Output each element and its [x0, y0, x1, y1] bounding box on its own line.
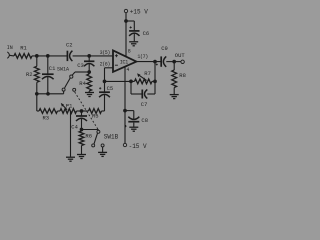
svg-text:C2: C2 [66, 42, 73, 49]
svg-text:C8: C8 [141, 117, 148, 124]
svg-text:R4: R4 [79, 80, 86, 87]
svg-text:R2: R2 [26, 71, 33, 78]
svg-text:C6: C6 [143, 30, 150, 37]
svg-text:2(6): 2(6) [100, 61, 111, 67]
svg-text:OUT: OUT [175, 52, 186, 59]
svg-text:SW1B: SW1B [104, 133, 119, 140]
svg-text:R1: R1 [20, 45, 27, 52]
svg-text:R6: R6 [85, 133, 92, 140]
svg-text:4: 4 [126, 67, 129, 73]
svg-text:R7: R7 [144, 70, 151, 77]
svg-text:IN: IN [7, 45, 13, 51]
svg-text:3(5): 3(5) [100, 50, 111, 56]
svg-text:R3: R3 [43, 115, 50, 122]
svg-text:SW1A: SW1A [57, 67, 69, 73]
svg-text:-15 V: -15 V [129, 143, 147, 150]
svg-text:P1: P1 [66, 102, 73, 109]
svg-text:8: 8 [128, 49, 131, 55]
svg-text:C3: C3 [77, 62, 84, 69]
svg-text:C7: C7 [141, 101, 148, 108]
svg-text:C9: C9 [161, 45, 168, 52]
svg-text:R5: R5 [92, 112, 99, 119]
svg-text:C5: C5 [107, 85, 114, 92]
svg-text:1(7): 1(7) [137, 54, 148, 60]
svg-text:R8: R8 [179, 72, 186, 79]
svg-text:C1: C1 [49, 65, 56, 72]
svg-text:IC1: IC1 [120, 59, 128, 65]
svg-text:+15 V: +15 V [130, 9, 148, 16]
svg-text:C4: C4 [71, 124, 78, 131]
